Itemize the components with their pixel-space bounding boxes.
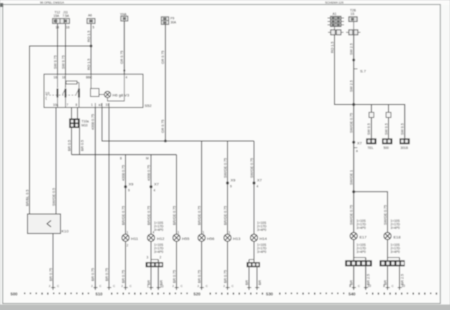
wire S52 pin a1 down to bus line1 <box>102 108 254 142</box>
wire to lamp H11 <box>120 155 126 234</box>
connector below H14 <box>247 262 260 267</box>
alternative codes above H14 <box>257 221 267 232</box>
alternative codes above E17 <box>357 219 367 230</box>
lamp E18 <box>384 232 401 239</box>
junction node at (353.7,104.5) <box>352 103 355 106</box>
fuse F1 <box>53 19 70 24</box>
svg-text:1: 1 <box>178 231 180 235</box>
heater element in S52 <box>66 81 80 88</box>
fuse block stack <box>328 16 345 26</box>
svg-text:SCHEMA 126: SCHEMA 126 <box>325 1 344 5</box>
svg-text:RO 1.5: RO 1.5 <box>87 31 91 42</box>
fuse F2 label <box>88 14 92 18</box>
svg-text:4: 4 <box>126 76 128 80</box>
svg-text:510: 510 <box>96 292 104 297</box>
harness connector TEL <box>366 138 376 150</box>
track tick dots <box>24 293 437 295</box>
svg-text:3: 3 <box>147 256 149 260</box>
wire S52 pin 1 to ground rail <box>91 108 95 290</box>
svg-text:SW 2.5: SW 2.5 <box>350 80 354 92</box>
wire from F3 down to S52 pin 4 <box>120 21 125 74</box>
svg-text:10: 10 <box>402 284 406 288</box>
svg-text:30A: 30A <box>171 21 178 25</box>
track number scale <box>11 292 357 297</box>
svg-text:H6 g8 V3: H6 g8 V3 <box>113 92 130 97</box>
branch wire to E18 <box>354 192 388 233</box>
svg-text:BR 0.75: BR 0.75 <box>172 270 176 283</box>
svg-text:SW 0.75: SW 0.75 <box>61 55 65 69</box>
harness connector 500 <box>382 138 392 150</box>
svg-text:SW/GE 0.75: SW/GE 0.75 <box>383 205 387 225</box>
svg-text:GR 0.75: GR 0.75 <box>120 51 124 64</box>
svg-text:SW/GE 0.75: SW/GE 0.75 <box>250 158 254 178</box>
svg-text:8: 8 <box>76 103 78 107</box>
svg-text:BR/GE 0.75: BR/GE 0.75 <box>172 206 176 225</box>
wire S52 pin 10a down to K10 <box>52 108 56 215</box>
svg-text:3=4P0: 3=4P0 <box>391 226 401 230</box>
lamp H12 <box>147 231 165 242</box>
junction node to E18 branch <box>352 190 355 193</box>
svg-text:530: 530 <box>266 292 274 297</box>
wire to lamp H55 <box>172 155 176 234</box>
svg-text:3=4P0: 3=4P0 <box>357 250 367 254</box>
svg-text:2: 2 <box>160 256 162 260</box>
svg-text:SW 0.5: SW 0.5 <box>367 123 371 135</box>
svg-text:4008 0.75: 4008 0.75 <box>91 114 95 130</box>
svg-text:H55: H55 <box>182 236 190 241</box>
svg-text:10: 10 <box>160 285 164 289</box>
svg-text:SW/GE 0.75: SW/GE 0.75 <box>350 113 354 133</box>
svg-text:3=4P0: 3=4P0 <box>154 228 164 232</box>
svg-text:SW/GE 0.5: SW/GE 0.5 <box>52 188 56 206</box>
alternative codes below E18 <box>391 243 401 254</box>
svg-text:H11: H11 <box>131 236 139 241</box>
connector pair under F18 <box>346 30 361 35</box>
H12 ground wires <box>147 267 164 289</box>
svg-text:3=4P0: 3=4P0 <box>391 250 401 254</box>
svg-text:1: 1 <box>229 231 231 235</box>
wire from F1 pin 14 to S52 <box>53 24 57 75</box>
K10 symbol <box>47 221 51 227</box>
ground hooks at wire ends <box>51 288 402 290</box>
svg-text:BR 0.75: BR 0.75 <box>49 268 53 281</box>
svg-text:BR/GE 0.75: BR/GE 0.75 <box>197 206 201 225</box>
svg-text:SW/GE 1: SW/GE 1 <box>350 170 354 185</box>
svg-text:4008 0.75: 4008 0.75 <box>147 165 151 181</box>
svg-text:X7: X7 <box>154 182 160 187</box>
connector below H12 <box>146 262 163 267</box>
svg-text:4: 4 <box>153 231 155 235</box>
stubs from S52 to connector <box>72 108 78 119</box>
lamp E17 <box>350 232 367 239</box>
lamp H11 <box>122 231 139 248</box>
svg-text:SW 0.75: SW 0.75 <box>53 55 57 69</box>
H14 ground wires <box>245 267 262 289</box>
main wire continues down to tail lamps <box>350 105 354 233</box>
svg-text:X7: X7 <box>257 178 263 183</box>
svg-text:B6C: B6C <box>86 76 93 80</box>
H56 ground wire <box>197 241 201 289</box>
svg-text:A6: A6 <box>88 14 92 18</box>
svg-text:SW/GE 0.75: SW/GE 0.75 <box>350 205 354 225</box>
svg-text:96 OPEL OMEGA: 96 OPEL OMEGA <box>40 1 64 5</box>
switch contact 1 <box>57 74 59 107</box>
svg-text:BR: BR <box>258 280 262 285</box>
fuse F2 <box>87 19 95 24</box>
svg-text:520: 520 <box>194 292 202 297</box>
svg-text:10: 10 <box>368 284 372 288</box>
H12 wire into connector <box>147 241 162 262</box>
connector X9 on H13 wire <box>226 178 236 189</box>
wire to lamp H12 <box>146 155 151 234</box>
S52 bottom pin labels <box>53 103 109 107</box>
connector pair under fuse block <box>328 30 344 35</box>
svg-text:2: 2 <box>127 244 129 248</box>
svg-text:7.5A: 7.5A <box>63 14 70 18</box>
lamp H56 <box>198 231 215 242</box>
ground pin labels at rail <box>57 284 395 288</box>
E18 ground wires <box>383 266 405 289</box>
fuse block label A1 <box>333 12 337 16</box>
svg-text:SW 0.5: SW 0.5 <box>384 123 388 135</box>
wire from F18 down <box>350 22 354 105</box>
wires from connector down to bus line2 <box>67 128 84 155</box>
svg-text:X9: X9 <box>231 178 237 183</box>
mechanical coupling dashed line <box>46 94 77 96</box>
wire from left fuse col down <box>330 27 353 105</box>
lamp internal wiring <box>91 74 125 101</box>
svg-text:YHA: YHA <box>120 12 127 16</box>
svg-text:SW/GE 0.75: SW/GE 0.75 <box>223 158 227 178</box>
svg-text:3=4P0: 3=4P0 <box>257 250 267 254</box>
switch unit S52 box <box>44 74 152 108</box>
svg-text:301B: 301B <box>401 146 408 150</box>
svg-text:RO 1.5: RO 1.5 <box>330 42 334 53</box>
wire label above E17 <box>350 205 354 225</box>
connector below E17 <box>345 260 372 266</box>
switch contact 2 <box>63 74 67 107</box>
svg-text:TEL: TEL <box>368 146 374 150</box>
svg-text:H12: H12 <box>157 236 165 241</box>
svg-text:BR 0.75: BR 0.75 <box>91 268 95 281</box>
svg-text:540: 540 <box>349 292 357 297</box>
E17 wire into connector <box>354 240 366 261</box>
svg-text:BR 0.75: BR 0.75 <box>197 270 201 283</box>
svg-text:5: 5 <box>93 26 95 30</box>
alternative codes below H12 <box>154 243 164 254</box>
svg-text:E18: E18 <box>394 235 402 240</box>
svg-text:SW 2.5: SW 2.5 <box>350 43 354 55</box>
svg-text:BR 0.5: BR 0.5 <box>81 140 85 151</box>
H13 ground wire <box>223 241 227 289</box>
S52 top pin labels <box>54 76 128 80</box>
svg-text:A1: A1 <box>333 12 337 16</box>
junction node on line1 <box>164 140 167 143</box>
switch position label <box>45 91 50 101</box>
svg-text:1S: 1S <box>351 12 355 16</box>
fuse F4 (double) <box>161 17 168 25</box>
fuse F18 <box>349 17 357 22</box>
connector below E18 <box>380 260 405 266</box>
svg-text:S52: S52 <box>145 103 153 108</box>
svg-text:X7: X7 <box>357 141 363 146</box>
svg-text:BR 0.5: BR 0.5 <box>67 140 71 151</box>
svg-text:BR/GE 0.75: BR/GE 0.75 <box>223 206 227 225</box>
alternative codes above E18 <box>391 219 401 230</box>
fuse F4 label <box>171 17 178 25</box>
H55 ground wire <box>172 241 176 289</box>
pin label under F2 <box>93 26 95 30</box>
lamp H13 <box>224 231 241 242</box>
svg-text:M10: M10 <box>82 124 88 128</box>
bus line2 <box>72 154 177 156</box>
wire from F1 pin 16 to S52 <box>61 24 65 75</box>
wire from F2 down to S52 pin B6C <box>87 24 91 75</box>
svg-text:SW 0.5: SW 0.5 <box>401 123 405 135</box>
alternative codes below E17 <box>357 243 367 254</box>
svg-text:4008 0.75: 4008 0.75 <box>121 165 125 181</box>
svg-text:16: 16 <box>66 26 70 30</box>
fuse F3 <box>121 16 128 21</box>
relay K10 box <box>28 214 70 234</box>
wire: horizontal y=46 from x=29.5 to x=91 <box>25 46 91 214</box>
lamp H14 <box>250 234 267 241</box>
svg-text:GR 0.75: GR 0.75 <box>161 51 165 64</box>
connector X7 on H14 wire <box>253 178 263 189</box>
branch wire 2 with inline fuse <box>384 105 391 139</box>
svg-text:9: 9 <box>230 185 232 189</box>
pin labels under F1 <box>56 26 70 30</box>
svg-text:RO 1.5: RO 1.5 <box>87 59 91 70</box>
svg-text:E17: E17 <box>360 235 368 240</box>
branch wire 3 label <box>401 123 405 135</box>
svg-text:1: 1 <box>147 285 149 289</box>
branch wire 1 with inline fuse <box>367 105 374 139</box>
svg-text:H13: H13 <box>233 236 241 241</box>
H14 wire into connector <box>249 241 254 262</box>
internal link contact2 bottom <box>95 103 109 108</box>
connector X10 below S52 <box>70 119 89 128</box>
svg-text:1: 1 <box>127 231 129 235</box>
svg-text:1: 1 <box>203 231 205 235</box>
svg-text:GR 0.75: GR 0.75 <box>161 120 165 133</box>
bus line1 branch to H56 <box>197 141 201 234</box>
svg-text:X9: X9 <box>129 182 135 187</box>
svg-text:8: 8 <box>120 157 122 161</box>
svg-text:500: 500 <box>384 146 390 150</box>
illumination lamp H6 in S52 <box>104 91 130 97</box>
E18 wire into connector <box>388 240 400 261</box>
alternative codes below H14 <box>257 243 267 254</box>
E17 ground wires <box>349 266 371 289</box>
connector X9 on H11 wire <box>124 182 134 193</box>
svg-text:BR/GE 0.75: BR/GE 0.75 <box>147 206 151 225</box>
svg-text:16: 16 <box>54 76 58 80</box>
lamp H55 <box>173 231 190 242</box>
svg-text:3=4P0: 3=4P0 <box>154 250 164 254</box>
switch contact 3 <box>76 88 80 108</box>
svg-text:4: 4 <box>154 189 156 193</box>
connector X7 on H12 wire <box>150 182 160 193</box>
junction node at (91,46) <box>90 45 93 48</box>
svg-text:4: 4 <box>257 185 259 189</box>
wire S52 pin 31 to ground rail <box>105 108 109 290</box>
svg-text:H56: H56 <box>207 236 215 241</box>
svg-text:7: 7 <box>67 103 69 107</box>
svg-text:3=4P0: 3=4P0 <box>357 226 367 230</box>
svg-text:M: M <box>146 157 149 161</box>
K10 ground wire <box>49 234 53 290</box>
svg-text:BR 0.75: BR 0.75 <box>121 270 125 283</box>
alternative codes above H12 <box>154 221 164 232</box>
wire from F4 down to bus line1 <box>161 24 165 141</box>
svg-text:1: 1 <box>91 103 93 107</box>
svg-text:K10: K10 <box>62 229 70 234</box>
svg-text:3=4P0: 3=4P0 <box>257 228 267 232</box>
svg-text:BR 0.75: BR 0.75 <box>223 270 227 283</box>
inline connector X7 on main wire <box>352 141 362 154</box>
connector X7 marks on wire <box>352 59 366 74</box>
fuse F3 label <box>120 12 127 16</box>
svg-text:S.7: S.7 <box>360 69 367 74</box>
svg-text:BR/BL 0.5: BR/BL 0.5 <box>25 190 29 206</box>
svg-text:15A: 15A <box>54 14 61 18</box>
right distribution bus <box>354 105 405 139</box>
corner mark top-left <box>0 3 3 7</box>
bus line1 branch to H13 <box>223 141 227 234</box>
svg-text:BR: BR <box>245 280 249 285</box>
svg-text:BR/GE 0.75: BR/GE 0.75 <box>121 206 125 225</box>
svg-text:H14: H14 <box>260 236 268 241</box>
svg-text:500: 500 <box>11 292 19 297</box>
svg-text:a: a <box>356 149 358 153</box>
fuse F1 label <box>54 11 70 19</box>
harness connector 301B <box>400 138 410 150</box>
svg-text:BR 0.75: BR 0.75 <box>105 268 109 281</box>
fuse F18 label <box>350 9 356 17</box>
svg-text:9: 9 <box>128 189 130 193</box>
bus line1 end branch to H14 <box>250 141 254 234</box>
H11 ground wire <box>121 241 125 289</box>
